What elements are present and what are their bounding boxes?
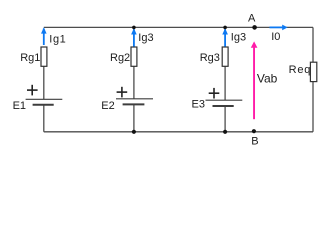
svg-text:E1: E1	[13, 100, 26, 112]
junction dot branch3 top	[223, 26, 227, 30]
wire branch1 battery-to-bottom	[43, 105, 45, 132]
battery E1	[26, 85, 63, 105]
wire branch3 top-to-resistor	[224, 27, 226, 47]
wire branch2 battery-to-bottom	[133, 104, 135, 131]
resistor Rg2	[131, 47, 137, 66]
svg-text:B: B	[251, 136, 258, 148]
svg-text:Rg3: Rg3	[200, 52, 220, 64]
wire branch1 resistor-to-battery	[43, 66, 45, 99]
junction dot branch3 bottom	[223, 130, 227, 134]
wire branch2 top-to-resistor	[133, 27, 135, 47]
node B dot	[252, 129, 256, 133]
wire right side lower	[312, 82, 314, 132]
svg-text:Rg1: Rg1	[20, 52, 40, 64]
junction dot branch2 top	[132, 26, 136, 30]
svg-text:E2: E2	[101, 100, 114, 112]
node A dot	[252, 25, 257, 30]
wire branch2 resistor-to-battery	[133, 66, 135, 99]
wire bottom bus	[44, 131, 313, 133]
resistor Rg3	[222, 47, 228, 66]
battery E3	[206, 88, 243, 106]
wire branch3 battery-to-bottom	[224, 106, 226, 132]
svg-text:Ig1: Ig1	[49, 33, 66, 45]
current arrow Ig1	[41, 27, 47, 45]
wire right side upper	[312, 27, 314, 62]
junction dot branch2 bottom	[132, 130, 136, 134]
svg-text:I0: I0	[271, 31, 280, 43]
wire branch3 resistor-to-battery	[224, 66, 226, 100]
svg-text:E3: E3	[192, 98, 205, 110]
voltage arrow Vab	[251, 41, 258, 119]
current arrow Ig3 branch2	[131, 28, 137, 46]
current arrow I0	[270, 25, 288, 31]
svg-text:Req: Req	[289, 64, 312, 76]
resistor Rg1	[41, 47, 47, 66]
battery E2	[116, 87, 153, 105]
resistor Req	[310, 62, 316, 81]
svg-text:Rg2: Rg2	[110, 52, 130, 64]
current arrow Ig3 branch3	[222, 28, 228, 46]
svg-text:Ig3: Ig3	[138, 32, 153, 44]
svg-text:Ig3: Ig3	[231, 31, 246, 43]
svg-text:Vab: Vab	[257, 71, 278, 85]
svg-text:A: A	[248, 13, 256, 25]
wire top bus	[44, 26, 313, 28]
